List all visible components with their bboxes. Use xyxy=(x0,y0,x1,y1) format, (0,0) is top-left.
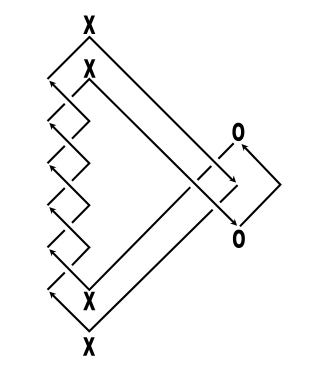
wire: strand from corner K1 down-left toward V2, upper piece before passing under A2 diagonal xyxy=(220,185,238,202)
wire: strand continuing over apex A2 under second X, then long diagonal down-right to bottom O xyxy=(72,79,234,223)
wire: strand from bottom O up-right to corner K2 then up-left toward top O xyxy=(240,147,280,226)
wire: strand from corner C0 up to apex A1 under top X, then long over-diagonal down-right to corner K1 xyxy=(48,37,234,181)
arrowhead pointing up-left at top O xyxy=(242,144,249,151)
arrowhead pointing down-right at corner K1 xyxy=(229,175,236,182)
arrowhead pointing up-left at corner L3 xyxy=(49,207,56,214)
arrowhead pointing up-left at corner L2 xyxy=(49,165,56,172)
marking X3: lower X label above bottom X xyxy=(84,292,95,309)
wire: strand continuing over corner R4 then up-left diagonal toward corner L3 xyxy=(52,210,89,265)
wire: strand from corner L2 up-right, piece below crossing c2 xyxy=(48,146,65,163)
wire: strand middle piece between the two under-crossings xyxy=(198,166,212,180)
wire: strand continuing over corner R2 then up-left diagonal toward corner L1 xyxy=(52,126,89,181)
arrowhead pointing up-left at corner L1 xyxy=(49,123,56,130)
wire: strand from corner L1 up-right, piece below crossing c1 xyxy=(48,104,65,121)
wire: strand continuing over corner R3 then up-left diagonal toward corner L2 xyxy=(52,168,89,223)
wire: strand from corner L4 up-right, piece below crossing c4 xyxy=(48,230,65,247)
marking X4: bottom X label xyxy=(84,338,95,355)
wire: strand continuing over corner R1 then up-left diagonal toward corner C0 xyxy=(52,84,89,139)
wire: strand continuing down-left to valley V1 above X3, then up-left over crossing c5 toward corner L4 xyxy=(52,187,190,290)
marking X2: second X label xyxy=(84,60,95,77)
wire: strand continuing down-left to valley V2 above bottom X, then up-left to corner C5 xyxy=(52,210,212,332)
wire: strand from corner C5 up-right, piece below crossing c5 xyxy=(48,273,65,290)
wire: strand from corner L3 up-right, piece below crossing c3 xyxy=(48,188,65,205)
wire: strand from top O down-left, piece before passing under A1 diagonal xyxy=(218,143,233,159)
marking O2: bottom O label xyxy=(233,230,244,247)
arrowhead pointing up-left at corner C0 xyxy=(49,81,56,88)
marking X1: top X label xyxy=(84,16,95,33)
marking O1: top O label xyxy=(233,123,244,140)
arrowhead pointing up-left at corner C5 xyxy=(49,292,56,299)
arrowhead pointing down-right at bottom O xyxy=(230,219,237,226)
arrowhead pointing up-left at corner L4 xyxy=(49,249,56,256)
